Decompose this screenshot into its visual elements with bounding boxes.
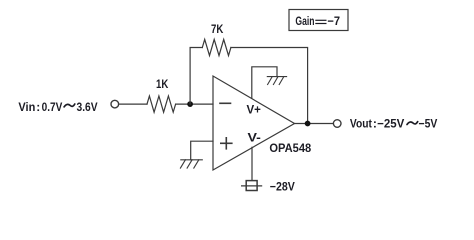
label Vout range (350, 117, 437, 131)
wire feedback up from node A (190, 48, 202, 105)
svg-text:Vin: Vin (18, 100, 35, 114)
op-amp plus input sign (221, 142, 232, 144)
svg-text:Vout: Vout (350, 117, 372, 131)
supply box -28V (246, 181, 257, 191)
svg-text:7K: 7K (211, 22, 224, 36)
svg-text:−5V: −5V (419, 117, 438, 131)
label Vin range (18, 100, 97, 114)
output terminal Vout (333, 120, 341, 128)
wire op-amp output (295, 123, 334, 125)
op-amp U1 triangle (213, 76, 295, 170)
label gain value (295, 14, 340, 28)
input terminal Vin (111, 100, 119, 108)
svg-text:−7: −7 (327, 14, 340, 28)
node A junction dot (187, 101, 193, 107)
gain annotation box (289, 10, 348, 31)
resistor R1 1K (147, 96, 176, 112)
svg-text:Gain: Gain (295, 14, 314, 28)
wire V- pin to negative supply (251, 147, 253, 180)
output node dot (305, 121, 311, 127)
svg-text:0.7V: 0.7V (42, 100, 63, 114)
wire R1 to op-amp inverting input (176, 103, 213, 105)
supply crossbar (242, 185, 262, 187)
svg-text:V+: V+ (247, 103, 261, 117)
ground GND1 (V+ pin) (267, 77, 286, 85)
wire non-inverting input to ground (191, 141, 213, 160)
wire input terminal to R1 (119, 103, 147, 105)
svg-text:1K: 1K (156, 77, 169, 91)
ground GND2 (+ input) (180, 160, 202, 168)
svg-text:−25V: −25V (377, 117, 404, 131)
wire V+ pin to ground (252, 67, 277, 99)
svg-text::: : (36, 100, 40, 114)
svg-text:OPA548: OPA548 (269, 141, 311, 155)
svg-text:V-: V- (248, 131, 261, 145)
op-amp minus input sign (220, 102, 231, 104)
svg-text:−28V: −28V (270, 180, 295, 194)
resistor R2 7K (202, 39, 231, 55)
wire feedback to output node (231, 48, 308, 124)
svg-text:3.6V: 3.6V (77, 100, 98, 114)
